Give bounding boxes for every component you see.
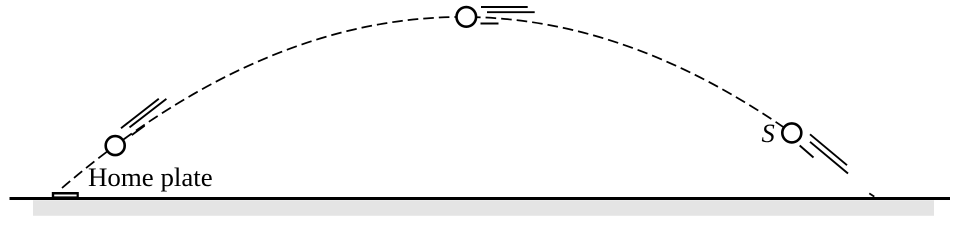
svg-text:S: S: [762, 118, 775, 148]
svg-text:Home plate: Home plate: [88, 162, 213, 192]
